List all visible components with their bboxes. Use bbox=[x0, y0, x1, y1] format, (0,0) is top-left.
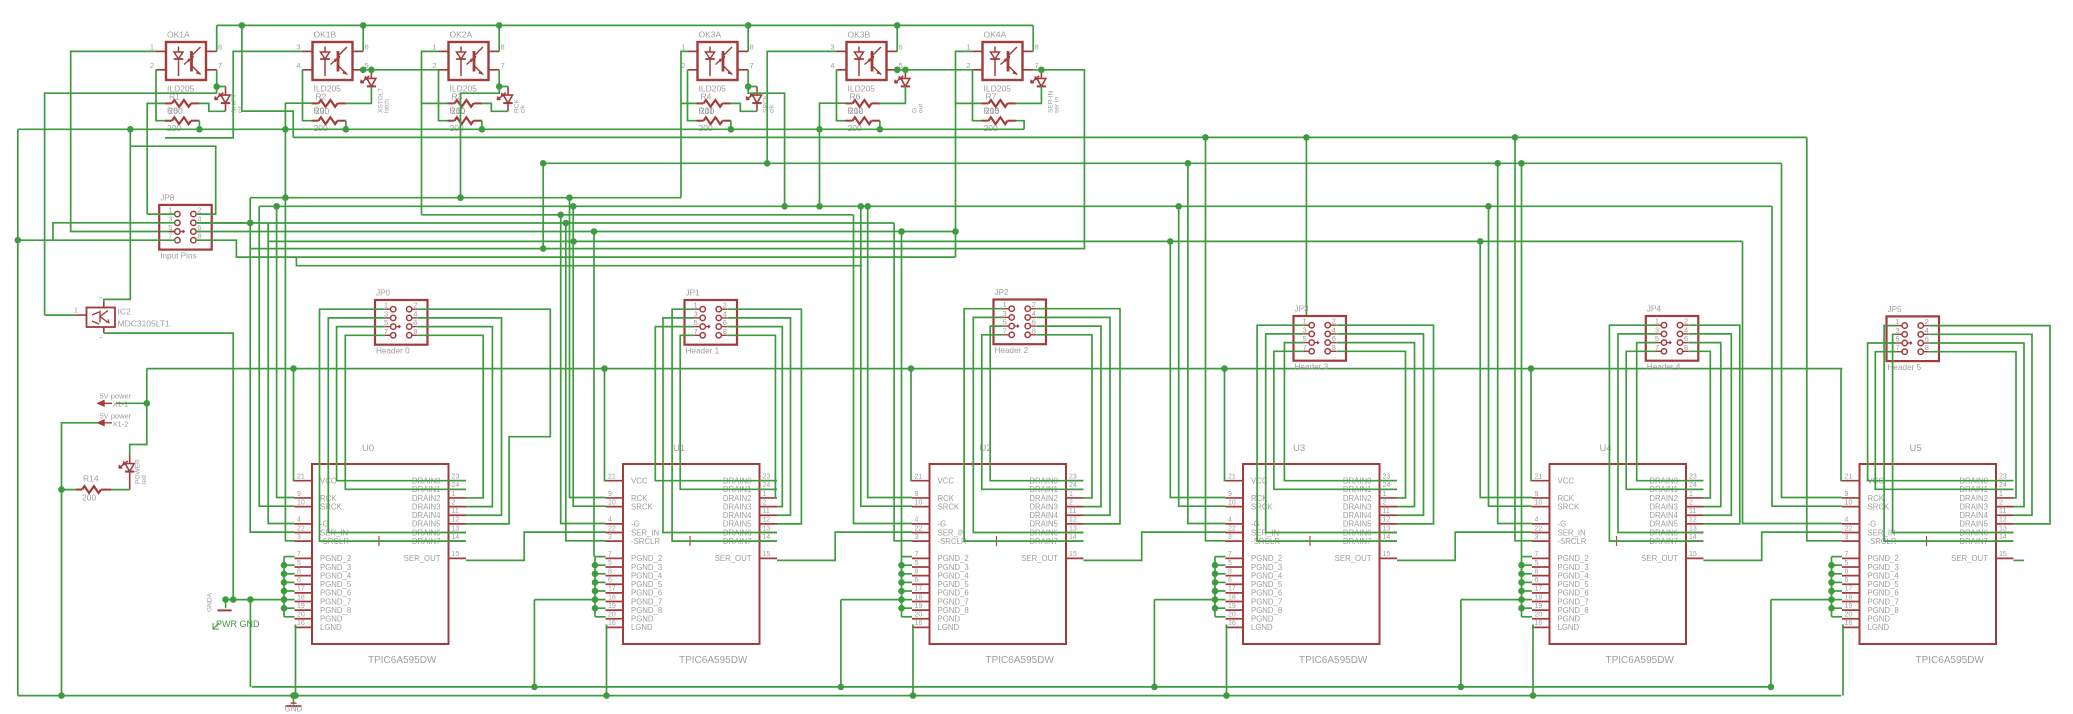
svg-text:TPIC6A595DW: TPIC6A595DW bbox=[1606, 655, 1675, 666]
svg-text:3: 3 bbox=[915, 534, 919, 541]
svg-text:18: 18 bbox=[915, 594, 923, 601]
svg-text:7: 7 bbox=[1845, 551, 1849, 558]
svg-text:4: 4 bbox=[1032, 309, 1036, 318]
svg-text:17: 17 bbox=[1228, 586, 1236, 593]
wire U1 grounds bbox=[531, 369, 610, 699]
svg-text:18: 18 bbox=[1228, 594, 1236, 601]
svg-text:15: 15 bbox=[1383, 551, 1391, 558]
svg-text:5: 5 bbox=[1845, 560, 1849, 567]
svg-text:200: 200 bbox=[450, 123, 464, 133]
svg-text:4: 4 bbox=[413, 309, 417, 318]
wire X1-1 to VCC rail bbox=[116, 369, 150, 407]
svg-text:JP5: JP5 bbox=[1888, 305, 1903, 314]
svg-text:8: 8 bbox=[1032, 326, 1036, 335]
wire JP3 to U3 drains bbox=[1257, 325, 1433, 541]
svg-text:8: 8 bbox=[1684, 343, 1688, 352]
LED indicator OK1B bbox=[361, 70, 391, 113]
svg-text:8: 8 bbox=[915, 568, 919, 575]
svg-text:24: 24 bbox=[1999, 482, 2007, 489]
svg-text:JP1: JP1 bbox=[686, 289, 701, 298]
svg-text:6: 6 bbox=[1535, 577, 1539, 584]
wires channel OK2A bbox=[439, 25, 509, 129]
svg-text:R2: R2 bbox=[316, 92, 327, 102]
svg-text:9: 9 bbox=[297, 491, 301, 498]
wire PWR GND rail bbox=[252, 686, 1771, 688]
svg-text:SER_OUT: SER_OUT bbox=[404, 554, 441, 563]
svg-text:3: 3 bbox=[1845, 534, 1849, 541]
svg-text:21: 21 bbox=[1535, 474, 1543, 481]
svg-text:12: 12 bbox=[1999, 517, 2007, 524]
ground GNDA PWR GND bbox=[207, 592, 260, 629]
svg-text:6: 6 bbox=[608, 577, 612, 584]
svg-text:9: 9 bbox=[1535, 491, 1539, 498]
svg-text:10: 10 bbox=[915, 499, 923, 506]
svg-text:4: 4 bbox=[1228, 517, 1232, 524]
IC U0 TPIC6A595DW bbox=[295, 443, 467, 666]
svg-text:23: 23 bbox=[1383, 474, 1391, 481]
svg-text:LGND: LGND bbox=[1868, 623, 1890, 632]
svg-text:24: 24 bbox=[1689, 482, 1697, 489]
svg-text:5: 5 bbox=[297, 560, 301, 567]
svg-text:SER_OUT: SER_OUT bbox=[1335, 554, 1372, 563]
svg-text:13: 13 bbox=[452, 525, 460, 532]
svg-text:3: 3 bbox=[1228, 534, 1232, 541]
wire JP8 pin1 bbox=[147, 213, 175, 215]
svg-text:22: 22 bbox=[608, 525, 616, 532]
wire U3 control feeds bbox=[1170, 137, 1225, 540]
wire bus row5 bbox=[196, 228, 955, 235]
wire U4 SER_OUT chain bbox=[1704, 532, 1843, 560]
resistor R14 200 bbox=[62, 474, 112, 503]
wire 1306 riser bbox=[1303, 134, 1310, 316]
LED indicator OK3B bbox=[895, 70, 925, 113]
svg-text:TPIC6A595DW: TPIC6A595DW bbox=[368, 655, 437, 666]
svg-text:1: 1 bbox=[1383, 491, 1387, 498]
LED indicator OK2A bbox=[497, 87, 526, 114]
svg-text:Input Pins: Input Pins bbox=[160, 251, 196, 260]
svg-text:16: 16 bbox=[608, 620, 616, 627]
svg-text:5: 5 bbox=[608, 560, 612, 567]
wire ch2 pin3 drop bbox=[165, 51, 303, 137]
wire long rail A bbox=[293, 134, 1807, 141]
LED indicator OK4A bbox=[1031, 70, 1061, 113]
wire JP8 pin3 bbox=[53, 223, 176, 240]
svg-text:7: 7 bbox=[608, 551, 612, 558]
svg-text:21: 21 bbox=[1228, 474, 1236, 481]
svg-text:R14: R14 bbox=[83, 474, 99, 484]
svg-text:7: 7 bbox=[297, 551, 301, 558]
svg-text:8: 8 bbox=[723, 327, 727, 336]
svg-text:6: 6 bbox=[899, 42, 903, 51]
wire ch3 pin1 feed bbox=[422, 51, 448, 214]
svg-text:8: 8 bbox=[218, 42, 222, 51]
svg-text:2: 2 bbox=[1032, 300, 1036, 309]
svg-text:1: 1 bbox=[966, 42, 970, 51]
resistor R6 200 bbox=[846, 92, 880, 107]
wire ch2 feed vertical bbox=[282, 103, 311, 198]
svg-text:-SRCLR: -SRCLR bbox=[938, 537, 967, 546]
svg-text:U3: U3 bbox=[1293, 443, 1305, 454]
supply arrow X1-2 bbox=[98, 411, 132, 428]
svg-text:2: 2 bbox=[432, 61, 436, 70]
wires channel OK1A bbox=[156, 25, 226, 129]
svg-text:1: 1 bbox=[763, 491, 767, 498]
wire ch2 pin5 to ch3 pin2 bbox=[360, 67, 439, 74]
svg-text:5: 5 bbox=[915, 560, 919, 567]
svg-text:2: 2 bbox=[966, 61, 970, 70]
resistor R11 200 bbox=[697, 106, 731, 134]
svg-text:clk: clk bbox=[769, 104, 776, 113]
wire U4 control feeds bbox=[1480, 137, 1532, 556]
svg-text:15: 15 bbox=[1999, 551, 2007, 558]
wire U3 grounds bbox=[1151, 369, 1230, 699]
connector JP1 Header 1 bbox=[685, 289, 738, 356]
wire ch5 feed vertical bbox=[816, 103, 845, 206]
svg-text:11: 11 bbox=[1069, 508, 1076, 515]
svg-text:JP4: JP4 bbox=[1647, 305, 1662, 314]
svg-text:22: 22 bbox=[1535, 525, 1543, 532]
svg-text:LGND: LGND bbox=[320, 623, 342, 632]
svg-text:22: 22 bbox=[297, 525, 305, 532]
wire ch4 junction drop bbox=[748, 87, 788, 210]
wire U2 SER_OUT chain bbox=[1084, 532, 1226, 560]
svg-text:GNDA: GNDA bbox=[207, 592, 214, 612]
svg-text:TPIC6A595DW: TPIC6A595DW bbox=[986, 655, 1055, 666]
connector JP3 Header 3 bbox=[1294, 305, 1347, 372]
svg-text:OK4A: OK4A bbox=[984, 30, 1007, 40]
junction node OK1B bbox=[368, 67, 375, 74]
wire JP8 pin8 bbox=[196, 240, 955, 257]
svg-text:OK1A: OK1A bbox=[167, 30, 190, 40]
wire bus row7 bbox=[250, 70, 1084, 252]
svg-text:SRCK: SRCK bbox=[1558, 502, 1580, 511]
svg-text:9: 9 bbox=[608, 491, 612, 498]
svg-text:U1: U1 bbox=[673, 443, 685, 454]
wire U0 SER_OUT chain bbox=[466, 532, 606, 560]
svg-text:24: 24 bbox=[1069, 482, 1077, 489]
svg-text:OK2A: OK2A bbox=[450, 30, 473, 40]
wire ch5 pin5 to ch6 pin2 bbox=[894, 67, 973, 74]
svg-text:SRCK: SRCK bbox=[320, 502, 342, 511]
svg-text:19: 19 bbox=[1535, 603, 1543, 610]
svg-text:23: 23 bbox=[763, 474, 771, 481]
connector JP5 Header 5 bbox=[1887, 305, 1940, 372]
wire X1-2 to R14 bbox=[58, 423, 98, 699]
svg-text:7: 7 bbox=[1535, 551, 1539, 558]
wire U0 grounds bbox=[222, 369, 299, 699]
svg-text:23: 23 bbox=[1999, 474, 2007, 481]
wire GND rail bbox=[18, 695, 1841, 697]
svg-text:8: 8 bbox=[413, 327, 417, 336]
svg-text:6: 6 bbox=[723, 318, 727, 327]
resistor R12 200 bbox=[846, 106, 880, 134]
svg-text:13: 13 bbox=[763, 525, 771, 532]
svg-text:200: 200 bbox=[314, 123, 328, 133]
connector JP2 Header 2 bbox=[994, 288, 1047, 355]
svg-text:14: 14 bbox=[1689, 534, 1697, 541]
wires channel OK4A bbox=[973, 25, 1042, 129]
svg-text:MDC3105LT1: MDC3105LT1 bbox=[118, 319, 171, 329]
transistor driver IC2 MDC3105LT1 bbox=[74, 295, 170, 342]
wire bus row3 bbox=[422, 212, 854, 219]
wire bus row9seg bbox=[296, 257, 862, 266]
svg-text:15: 15 bbox=[1069, 551, 1077, 558]
svg-text:8: 8 bbox=[501, 42, 505, 51]
svg-text:SER_OUT: SER_OUT bbox=[715, 554, 752, 563]
svg-text:6: 6 bbox=[365, 42, 369, 51]
wire ch1 pin1 to JP8 pin5 bbox=[71, 51, 176, 231]
junction node OK4A bbox=[1038, 67, 1045, 74]
wire ch6 pin1 feed bbox=[952, 51, 981, 257]
svg-text:SRCK: SRCK bbox=[1251, 502, 1273, 511]
svg-text:4: 4 bbox=[296, 61, 300, 70]
svg-text:10: 10 bbox=[1535, 499, 1543, 506]
svg-text:14: 14 bbox=[452, 534, 460, 541]
svg-text:12: 12 bbox=[763, 517, 771, 524]
wire IC2 pin1 bbox=[45, 314, 76, 316]
svg-text:200: 200 bbox=[167, 123, 181, 133]
svg-text:4: 4 bbox=[830, 61, 834, 70]
svg-text:2: 2 bbox=[1069, 499, 1073, 506]
wire JP4 to U4 drains bbox=[1609, 325, 1739, 541]
svg-text:21: 21 bbox=[297, 474, 305, 481]
svg-text:OK3B: OK3B bbox=[848, 30, 871, 40]
svg-text:VCC: VCC bbox=[938, 477, 955, 486]
ground GND symbol bbox=[285, 692, 303, 713]
svg-text:6: 6 bbox=[1925, 335, 1929, 344]
svg-text:4: 4 bbox=[1845, 517, 1849, 524]
svg-text:14: 14 bbox=[1383, 534, 1391, 541]
svg-text:2: 2 bbox=[1383, 499, 1387, 506]
optocoupler OK2A ILD205 bbox=[432, 30, 504, 94]
wire left gnd drop bbox=[17, 129, 19, 695]
svg-text:IC2: IC2 bbox=[118, 307, 132, 317]
optocoupler OK1A ILD205 bbox=[150, 30, 222, 94]
resistor R2 200 bbox=[312, 92, 346, 107]
svg-text:Header 3: Header 3 bbox=[1295, 363, 1329, 372]
svg-text:20: 20 bbox=[1228, 612, 1236, 619]
wire bus row1 bbox=[250, 194, 681, 201]
svg-text:24: 24 bbox=[763, 482, 771, 489]
svg-text:5: 5 bbox=[1535, 560, 1539, 567]
svg-text:17: 17 bbox=[1845, 586, 1853, 593]
wire U0 SER_IN feed bbox=[250, 198, 294, 532]
svg-text:TPIC6A595DW: TPIC6A595DW bbox=[679, 655, 748, 666]
wire U5 SER_OUT stub bbox=[2014, 559, 2025, 561]
svg-text:200: 200 bbox=[849, 106, 863, 116]
wire long rail B bbox=[543, 160, 1781, 167]
svg-text:R4: R4 bbox=[701, 92, 712, 102]
connector JP0 Header 0 bbox=[375, 289, 428, 356]
svg-text:8: 8 bbox=[297, 568, 301, 575]
LED POWER led bbox=[111, 403, 148, 489]
svg-text:LGND: LGND bbox=[1558, 623, 1580, 632]
svg-text:2: 2 bbox=[1925, 317, 1929, 326]
svg-text:7: 7 bbox=[218, 61, 222, 70]
wire IC2 bottom to PWRGND bbox=[104, 333, 233, 600]
svg-text:6: 6 bbox=[915, 577, 919, 584]
wire ch1 R1 feed from JP8 pin1 bbox=[147, 103, 165, 214]
svg-text:24: 24 bbox=[452, 482, 460, 489]
svg-text:out: out bbox=[918, 104, 925, 113]
svg-text:1: 1 bbox=[150, 42, 154, 51]
resistor R10 200 bbox=[448, 106, 482, 134]
svg-text:8: 8 bbox=[1332, 343, 1336, 352]
junction node OK1A bbox=[213, 83, 220, 90]
svg-text:JP8: JP8 bbox=[160, 193, 175, 202]
svg-text:200: 200 bbox=[315, 106, 329, 116]
svg-text:VCC: VCC bbox=[1558, 477, 1575, 486]
resistor R13 200 bbox=[982, 106, 1016, 134]
wire bus row2 bbox=[259, 203, 1772, 210]
svg-text:SER_OUT: SER_OUT bbox=[1021, 554, 1058, 563]
svg-text:6: 6 bbox=[297, 577, 301, 584]
svg-text:JP3: JP3 bbox=[1295, 305, 1310, 314]
svg-text:1: 1 bbox=[1999, 491, 2003, 498]
junction node OK3A bbox=[745, 83, 752, 90]
svg-text:2: 2 bbox=[723, 301, 727, 310]
wire bus row6b bbox=[268, 238, 1742, 245]
IC U1 TPIC6A595DW bbox=[606, 443, 778, 666]
svg-text:U0: U0 bbox=[362, 443, 374, 454]
svg-text:8: 8 bbox=[1035, 42, 1039, 51]
svg-text:X1-2: X1-2 bbox=[113, 419, 129, 428]
svg-text:9: 9 bbox=[1845, 491, 1849, 498]
svg-text:11: 11 bbox=[452, 508, 459, 515]
svg-text:SRCK: SRCK bbox=[938, 502, 960, 511]
svg-text:TPIC6A595DW: TPIC6A595DW bbox=[1916, 655, 1985, 666]
svg-text:21: 21 bbox=[1845, 474, 1853, 481]
resistor R7 200 bbox=[982, 92, 1016, 107]
svg-text:SRCK: SRCK bbox=[1868, 502, 1890, 511]
svg-text:14: 14 bbox=[1999, 534, 2007, 541]
svg-text:Header 2: Header 2 bbox=[995, 346, 1029, 355]
svg-text:11: 11 bbox=[763, 508, 770, 515]
svg-text:2: 2 bbox=[1689, 499, 1693, 506]
svg-text:17: 17 bbox=[297, 586, 305, 593]
svg-text:16: 16 bbox=[1228, 620, 1236, 627]
svg-text:14: 14 bbox=[763, 534, 771, 541]
svg-text:11: 11 bbox=[1689, 508, 1696, 515]
wire JP1 to U1 drains bbox=[655, 309, 801, 541]
svg-text:2: 2 bbox=[681, 61, 685, 70]
resistor R4 200 bbox=[697, 92, 731, 107]
svg-text:1: 1 bbox=[74, 308, 78, 315]
svg-text:6: 6 bbox=[1332, 334, 1336, 343]
svg-text:18: 18 bbox=[1845, 594, 1853, 601]
svg-text:Header 0: Header 0 bbox=[376, 347, 410, 356]
IC U3 TPIC6A595DW bbox=[1226, 443, 1398, 666]
wire JP8 pin2 bbox=[130, 146, 215, 214]
svg-text:9: 9 bbox=[1228, 491, 1232, 498]
junction node OK2A bbox=[496, 83, 503, 90]
svg-text:23: 23 bbox=[1069, 474, 1077, 481]
svg-text:JP0: JP0 bbox=[376, 289, 391, 298]
svg-text:7: 7 bbox=[501, 61, 505, 70]
svg-text:2: 2 bbox=[1332, 317, 1336, 326]
wire bus row4 bbox=[197, 220, 894, 227]
svg-text:6: 6 bbox=[1684, 334, 1688, 343]
svg-text:21: 21 bbox=[915, 474, 923, 481]
wire U0 G feed bbox=[268, 223, 294, 524]
svg-text:12: 12 bbox=[1383, 517, 1391, 524]
svg-text:latch: latch bbox=[384, 99, 391, 113]
svg-text:SRCK: SRCK bbox=[631, 502, 653, 511]
svg-text:16: 16 bbox=[297, 620, 305, 627]
svg-text:U5: U5 bbox=[1910, 443, 1922, 454]
svg-text:18: 18 bbox=[608, 594, 616, 601]
svg-text:~: ~ bbox=[99, 335, 103, 342]
svg-text:Header 1: Header 1 bbox=[686, 347, 720, 356]
svg-text:16: 16 bbox=[1535, 620, 1543, 627]
wire U2 grounds bbox=[838, 369, 917, 699]
optocoupler OK4A ILD205 bbox=[966, 30, 1038, 94]
svg-text:-SRCLR: -SRCLR bbox=[631, 537, 660, 546]
svg-text:10: 10 bbox=[1845, 499, 1853, 506]
svg-text:5: 5 bbox=[1228, 560, 1232, 567]
wire U3 SER_OUT chain bbox=[1397, 532, 1532, 560]
svg-text:8: 8 bbox=[1845, 568, 1849, 575]
svg-text:20: 20 bbox=[608, 612, 616, 619]
svg-text:22: 22 bbox=[915, 525, 923, 532]
wire ch3 junction drop bbox=[457, 87, 499, 202]
svg-text:R7: R7 bbox=[986, 92, 997, 102]
junction node OK3B bbox=[902, 67, 909, 74]
svg-text:20: 20 bbox=[915, 612, 923, 619]
svg-text:13: 13 bbox=[1383, 525, 1391, 532]
wire U1 SER_OUT chain bbox=[777, 532, 912, 560]
svg-text:19: 19 bbox=[608, 603, 616, 610]
svg-text:1: 1 bbox=[432, 42, 436, 51]
svg-text:200: 200 bbox=[848, 123, 862, 133]
svg-text:ser in: ser in bbox=[1054, 97, 1061, 113]
svg-text:8: 8 bbox=[1228, 568, 1232, 575]
svg-text:6: 6 bbox=[1032, 318, 1036, 327]
svg-text:1: 1 bbox=[1689, 491, 1693, 498]
svg-text:10: 10 bbox=[608, 499, 616, 506]
svg-text:1: 1 bbox=[452, 491, 456, 498]
svg-text:11: 11 bbox=[1999, 508, 2006, 515]
svg-text:23: 23 bbox=[452, 474, 460, 481]
svg-text:2: 2 bbox=[413, 301, 417, 310]
svg-text:22: 22 bbox=[1228, 525, 1236, 532]
svg-text:15: 15 bbox=[763, 551, 771, 558]
svg-text:4: 4 bbox=[297, 517, 301, 524]
svg-text:8: 8 bbox=[750, 42, 754, 51]
svg-text:11: 11 bbox=[1383, 508, 1390, 515]
svg-text:21: 21 bbox=[608, 474, 616, 481]
svg-text:2: 2 bbox=[150, 61, 154, 70]
connector JP8 Input Pins bbox=[159, 193, 212, 260]
svg-text:Header 4: Header 4 bbox=[1647, 363, 1681, 372]
svg-text:R6: R6 bbox=[850, 92, 861, 102]
wire rail jog via 242 bbox=[242, 25, 293, 137]
svg-text:17: 17 bbox=[915, 586, 923, 593]
wire U1 control feeds bbox=[561, 198, 606, 557]
svg-text:16: 16 bbox=[915, 620, 923, 627]
svg-text:2: 2 bbox=[1999, 499, 2003, 506]
svg-text:12: 12 bbox=[452, 517, 460, 524]
svg-text:20: 20 bbox=[1845, 612, 1853, 619]
svg-text:10: 10 bbox=[1228, 499, 1236, 506]
svg-text:20: 20 bbox=[297, 612, 305, 619]
svg-text:19: 19 bbox=[297, 603, 305, 610]
svg-text:OK3A: OK3A bbox=[699, 30, 722, 40]
svg-text:6: 6 bbox=[413, 318, 417, 327]
svg-text:20: 20 bbox=[1535, 612, 1543, 619]
LED indicator OK1A bbox=[215, 87, 244, 114]
wire top rail bbox=[217, 22, 1033, 29]
